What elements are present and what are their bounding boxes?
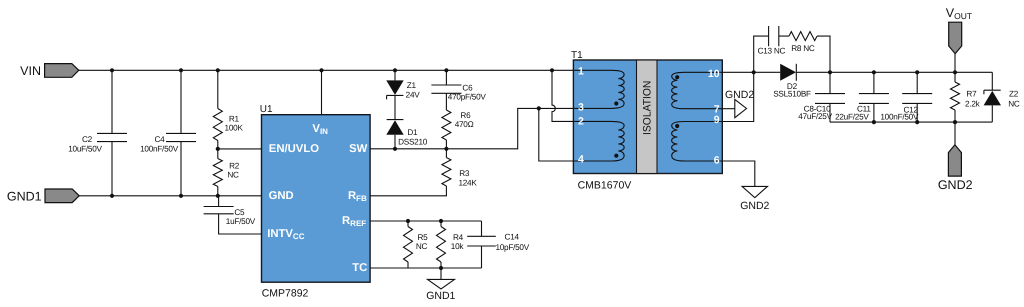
resistor R4 (440, 221, 442, 227)
resistor R6 (442, 110, 451, 140)
node R5 top (406, 219, 410, 223)
svg-text:C14: C14 (505, 232, 520, 241)
svg-text:C2: C2 (82, 135, 93, 144)
wire output bottom rail (830, 121, 992, 123)
node C2 bottom (110, 194, 114, 198)
svg-text:1: 1 (578, 66, 584, 78)
node C4 top (179, 68, 183, 72)
svg-text:EN/UVLO: EN/UVLO (269, 143, 319, 155)
capacitor C13 NC snubber (754, 36, 789, 72)
zener Z2 NC (991, 72, 993, 122)
node pin2 feed (550, 68, 554, 72)
svg-text:47uF/25V: 47uF/25V (798, 112, 832, 121)
svg-text:GND2: GND2 (938, 178, 973, 192)
svg-text:ISOLATION: ISOLATION (641, 81, 653, 135)
resistor R7 (954, 72, 956, 82)
terminal VIN (45, 64, 79, 78)
secondary winding 10-7 (672, 72, 723, 108)
svg-text:GND1: GND1 (426, 290, 455, 302)
svg-text:NC: NC (1008, 99, 1020, 108)
svg-text:CMB1670V: CMB1670V (578, 179, 632, 191)
primary winding 2-4 (574, 121, 624, 161)
svg-text:9: 9 (714, 114, 720, 126)
wire pin7 stub (722, 108, 735, 110)
svg-text:DSS210: DSS210 (398, 137, 428, 146)
svg-text:R1: R1 (229, 115, 240, 124)
svg-text:R6: R6 (460, 111, 471, 120)
wire U1 VIN feed (321, 70, 323, 114)
svg-text:SSL510BF: SSL510BF (773, 89, 811, 98)
svg-text:4: 4 (578, 154, 584, 166)
svg-text:C4: C4 (155, 135, 166, 144)
node C2 top (110, 68, 114, 72)
svg-text:GND2: GND2 (740, 200, 769, 212)
terminal GND2 output (954, 122, 956, 145)
svg-text:22uF/25V: 22uF/25V (835, 113, 869, 122)
resistor R3 (445, 149, 447, 158)
node R1 top (216, 68, 220, 72)
wire EN/UVLO (218, 148, 262, 150)
node C12 bottom (915, 120, 919, 124)
phase dot winding 1-3 (614, 101, 618, 105)
svg-text:10k: 10k (451, 242, 465, 251)
svg-text:GND1: GND1 (7, 189, 42, 203)
wire pin6 (722, 161, 755, 186)
capacitor C5 (219, 196, 262, 234)
diode D2 SSL510BF (780, 64, 796, 81)
wire GND1 rail (79, 195, 261, 197)
svg-text:470Ω: 470Ω (455, 120, 474, 129)
capacitor C6 (445, 70, 447, 110)
wire RREF net (370, 220, 481, 222)
svg-text:100nF/50V: 100nF/50V (140, 144, 179, 153)
node R7 bottom (953, 120, 957, 124)
node R4 top (439, 219, 443, 223)
node D1 SW (393, 147, 397, 151)
svg-text:GND2: GND2 (725, 89, 754, 101)
node pin4 feed (537, 106, 541, 110)
ground GND1 symbol (440, 268, 442, 279)
secondary winding 9-6 (672, 122, 723, 162)
svg-text:R4: R4 (453, 233, 464, 242)
node R6 bottom (444, 147, 448, 151)
svg-text:3: 3 (578, 102, 584, 114)
wire VIN top rail (79, 69, 574, 71)
svg-text:Z2: Z2 (1009, 90, 1019, 99)
phase dot winding 10-7 (675, 75, 679, 79)
node U1 VIN (319, 68, 323, 72)
svg-text:NC: NC (416, 242, 428, 251)
node Z1 top (393, 68, 397, 72)
svg-text:R3: R3 (459, 169, 470, 178)
svg-text:10pF/50V: 10pF/50V (495, 243, 529, 252)
terminal GND1 (45, 189, 79, 203)
svg-text:R2: R2 (229, 161, 240, 170)
terminal VOUT (954, 54, 956, 73)
svg-text:T1: T1 (571, 50, 583, 61)
node D2 anode (752, 70, 756, 74)
node EN junction (216, 147, 220, 151)
phase dot winding 9-6 (675, 124, 679, 128)
node R4 bottom (439, 266, 443, 270)
wire primary pin2 feed with hop (552, 70, 574, 121)
capacitor C2 (111, 70, 113, 196)
capacitor C12 (916, 72, 918, 122)
svg-text:TC: TC (352, 262, 367, 274)
wire primary pin4 feed (539, 108, 574, 161)
svg-text:NC: NC (227, 171, 239, 180)
node C6 top (444, 68, 448, 72)
primary winding 1-3 (574, 70, 624, 108)
capacitor C8-C10 (829, 72, 831, 122)
diode D1 DSS210 (387, 119, 404, 121)
node R2 bottom (216, 194, 220, 198)
svg-text:100K: 100K (225, 124, 244, 133)
capacitor C4 (180, 70, 182, 196)
svg-text:GND: GND (269, 190, 294, 202)
svg-text:2.2k: 2.2k (965, 99, 981, 108)
zener Z1 24V (394, 70, 396, 119)
svg-text:SW: SW (349, 143, 368, 155)
svg-text:470pF/50V: 470pF/50V (448, 93, 487, 102)
resistor R2 (217, 149, 219, 159)
node C8 top (828, 70, 832, 74)
wire pin9 riser (722, 72, 753, 121)
capacitor C11 (873, 72, 875, 122)
svg-text:CMP7892: CMP7892 (262, 288, 309, 300)
node C11 top (872, 70, 876, 74)
resistor R5 (407, 221, 409, 227)
transformer T1 CMB1670V body (573, 60, 722, 174)
svg-text:D1: D1 (407, 128, 418, 137)
node R7 top (953, 70, 957, 74)
capacitor C14 (481, 221, 483, 268)
svg-text:U1: U1 (260, 104, 273, 115)
ground GND2 side symbol (735, 99, 747, 117)
wire TC net (370, 267, 481, 269)
svg-text:VIN: VIN (20, 64, 41, 78)
op-amp U1 CMP7892 IC body (262, 115, 371, 283)
svg-text:C13 NC: C13 NC (758, 47, 786, 56)
wire SW net (370, 108, 574, 148)
svg-text:C6: C6 (462, 84, 473, 93)
svg-text:124K: 124K (458, 179, 477, 188)
wire pin10 to D2 (722, 71, 780, 73)
svg-text:100nF/50V: 100nF/50V (880, 113, 919, 122)
wire output top rail (796, 71, 992, 73)
svg-text:2: 2 (578, 116, 584, 128)
resistor R1 (217, 70, 219, 108)
phase dot winding 2-4 (614, 154, 618, 158)
svg-text:10: 10 (708, 68, 720, 80)
svg-text:R5: R5 (418, 233, 429, 242)
node C4 bottom (179, 194, 183, 198)
svg-text:R8 NC: R8 NC (791, 44, 815, 53)
ground GND2 symbol (742, 186, 767, 197)
svg-text:24V: 24V (406, 90, 421, 99)
node C11 bottom (872, 120, 876, 124)
svg-text:Z1: Z1 (407, 81, 417, 90)
node C12 top (915, 70, 919, 74)
svg-text:1uF/50V: 1uF/50V (226, 217, 256, 226)
svg-text:R7: R7 (966, 90, 977, 99)
resistor R8 NC snubber (789, 32, 817, 41)
svg-text:10uF/50V: 10uF/50V (68, 144, 102, 153)
svg-text:6: 6 (714, 155, 720, 167)
